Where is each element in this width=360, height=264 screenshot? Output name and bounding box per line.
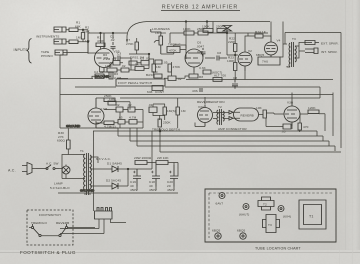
resistor R18 250K <box>216 25 227 33</box>
wire rectifier <box>90 157 152 186</box>
svg-text:C8: C8 <box>217 51 221 55</box>
capacitor C1 <box>110 35 116 49</box>
capacitor C17 <box>281 124 291 134</box>
svg-text:CONT: CONT <box>155 90 164 94</box>
svg-text:TREBLE: TREBLE <box>168 43 181 47</box>
resistor R18 b <box>197 27 208 35</box>
svg-text:FOOTSWITCH: FOOTSWITCH <box>39 213 61 217</box>
wire rail loop 4 <box>137 128 335 151</box>
reverb tank <box>234 108 259 121</box>
svg-text:D2 5AC45: D2 5AC45 <box>106 179 121 183</box>
svg-text:GROUND: GROUND <box>66 124 81 128</box>
wire B+ top bus <box>88 32 127 53</box>
svg-text:V2: V2 <box>248 49 252 53</box>
wire ground bus ps <box>58 189 178 196</box>
svg-text:INT. SPKR.: INT. SPKR. <box>321 50 338 54</box>
svg-text:EXT. SPKR.: EXT. SPKR. <box>321 42 339 46</box>
resistor R12 1M <box>153 70 162 78</box>
pot bass <box>146 64 161 77</box>
resistor R6 cathode <box>109 72 122 80</box>
diode D2 <box>106 179 121 190</box>
resistor R27 4.7M <box>104 121 116 129</box>
resistor R33 <box>256 106 266 118</box>
wire rail loop 2 <box>118 128 323 141</box>
tube V4 output <box>256 36 281 58</box>
svg-text:A.C. SW: A.C. SW <box>46 162 59 166</box>
resistor R36 4.7M <box>129 116 137 125</box>
jack foot pedal <box>116 79 165 86</box>
wire V1 cathode to ground <box>92 66 111 79</box>
svg-text:.05: .05 <box>163 61 168 65</box>
wire tremolo out <box>153 104 165 131</box>
svg-text:470K: 470K <box>173 65 181 69</box>
svg-text:120K: 120K <box>308 106 316 110</box>
svg-text:1M: 1M <box>156 65 161 69</box>
svg-text:T2: T2 <box>263 203 267 207</box>
svg-text:6BQ5: 6BQ5 <box>212 229 220 233</box>
resistor R21 <box>213 74 226 82</box>
resistor R32b <box>156 156 169 165</box>
svg-text:R8: R8 <box>199 75 203 79</box>
svg-text:AMP CONNECTOR: AMP CONNECTOR <box>218 127 247 131</box>
svg-text:7AU: 7AU <box>262 60 268 64</box>
resistor R8 cathode V2 <box>189 74 203 79</box>
plug AC line <box>8 163 32 175</box>
svg-text:T2: T2 <box>218 105 222 109</box>
svg-text:100K: 100K <box>183 27 191 31</box>
tube V5 tremolo <box>88 98 108 128</box>
tube V3A reverb driver <box>198 105 213 127</box>
capacitor C10 <box>155 60 168 65</box>
chart tube 6BQ5 right <box>237 229 246 240</box>
svg-text:D1 SA845: D1 SA845 <box>107 162 122 166</box>
lamp pilot <box>50 166 70 190</box>
svg-text:2.2M: 2.2M <box>103 57 111 61</box>
wire cluster <box>110 54 149 70</box>
jack J3 tape/phono <box>41 50 67 58</box>
capacitor C9 <box>192 88 202 93</box>
wire T3 primary/secondary <box>287 43 308 68</box>
wire phase inverter <box>227 33 245 80</box>
resistor network box <box>258 57 280 65</box>
capacitor C15 <box>115 103 123 112</box>
capacitor C5 <box>140 57 150 66</box>
svg-text:1M: 1M <box>181 109 186 113</box>
svg-text:T3: T3 <box>292 37 296 41</box>
capacitor C20 filter <box>167 165 178 192</box>
svg-text:100K: 100K <box>105 64 113 68</box>
wire B+ rail loop 1 <box>93 131 317 136</box>
wire tremolo osc <box>96 98 143 128</box>
svg-text:1M: 1M <box>76 36 81 40</box>
svg-text:T1: T1 <box>80 149 84 153</box>
svg-text:REVERBERATION: REVERBERATION <box>197 100 225 104</box>
svg-text:FOOT PEDAL SWITCH: FOOT PEDAL SWITCH <box>118 81 152 85</box>
resistor R37 1M <box>176 98 186 128</box>
svg-text:INPUTS: INPUTS <box>14 48 29 52</box>
capacitor C18 filter <box>149 165 160 192</box>
capacitor C4 cluster <box>112 57 120 65</box>
capacitor C7 <box>168 76 182 81</box>
resistor R5 1M <box>76 33 90 44</box>
tube V1 <box>95 33 120 72</box>
svg-text:PHONO: PHONO <box>41 54 53 58</box>
pot loudness <box>151 27 170 54</box>
chart transformer T3 <box>263 215 280 233</box>
svg-text:C4: C4 <box>112 57 116 61</box>
svg-text:.05: .05 <box>118 116 123 120</box>
svg-text:6BQ5: 6BQ5 <box>237 229 245 233</box>
pot tremolo depth <box>152 119 180 132</box>
switch tremolo <box>31 221 47 237</box>
footswitch box <box>27 210 73 245</box>
capacitor C3 coupling <box>114 52 124 61</box>
wire tone stack <box>129 38 186 78</box>
svg-text:3.3K: 3.3K <box>199 66 207 70</box>
chart tube 6AV7 <box>216 193 226 206</box>
svg-text:A.C.: A.C. <box>8 169 16 173</box>
resistor R17 100K <box>202 25 213 33</box>
resistor R22 220K <box>228 37 237 52</box>
jack J1 instruments <box>54 27 66 32</box>
tube V3B <box>284 101 300 127</box>
capacitor C8 <box>232 76 238 89</box>
resistor R13 3.3K <box>199 66 222 75</box>
wire rail loop 5 B+ <box>152 130 341 163</box>
capacitor C14 <box>118 116 125 125</box>
wire V4 plate top loop <box>271 22 287 58</box>
wire mid bus lines <box>60 80 333 99</box>
svg-text:10K: 10K <box>256 106 263 110</box>
wire AC to transformer <box>32 129 85 179</box>
switch AC on-off <box>36 162 59 170</box>
wire V3B stage <box>266 93 325 133</box>
svg-text:T1: T1 <box>309 215 314 219</box>
chart transformer T2 <box>258 197 274 210</box>
connector reverb plugs <box>229 111 233 121</box>
wire top rail rounded <box>127 21 270 49</box>
svg-text:6AV7: 6AV7 <box>216 202 224 206</box>
svg-text:.01: .01 <box>148 103 153 107</box>
resistor R3 470K <box>96 36 105 47</box>
svg-text:R24 1K: R24 1K <box>255 30 267 34</box>
svg-text:TUBE LOCATION CHART: TUBE LOCATION CHART <box>255 247 301 251</box>
capacitor C5b <box>121 64 129 72</box>
svg-text:C8: C8 <box>233 76 237 80</box>
svg-text:2W 10K: 2W 10K <box>157 156 169 160</box>
svg-text:1M: 1M <box>153 70 158 74</box>
wire plug leads <box>60 131 126 234</box>
svg-text:600Ω: 600Ω <box>57 139 65 143</box>
svg-text:REVERB 12 AMPLIFIER: REVERB 12 AMPLIFIER <box>162 5 238 11</box>
node B+ hourglass <box>223 26 232 34</box>
resistor R17 b <box>183 27 194 35</box>
svg-text:270K: 270K <box>126 42 134 46</box>
svg-text:.02: .02 <box>177 77 182 81</box>
svg-text:4.7M: 4.7M <box>100 107 108 111</box>
svg-text:FOOTSWITCH & PLUG: FOOTSWITCH & PLUG <box>20 250 76 255</box>
svg-text:REVERB: REVERB <box>56 221 69 225</box>
wire reverb section <box>195 97 263 127</box>
svg-text:5.0 SLO-BLO: 5.0 SLO-BLO <box>50 186 70 190</box>
capacitor C6 <box>196 41 206 57</box>
svg-text:.0047: .0047 <box>196 45 204 49</box>
resistor R26 250K <box>104 94 115 102</box>
svg-text:V4: V4 <box>277 39 281 43</box>
capacitor C13 .01 <box>148 103 157 113</box>
wire filter network <box>133 163 178 191</box>
chart tube 6AU7 <box>239 204 249 217</box>
capacitor C2 cathode <box>94 70 104 79</box>
svg-text:43S: 43S <box>192 89 198 93</box>
capacitor C8 coupling <box>205 51 227 61</box>
resistor R28 120K <box>308 106 319 114</box>
chart tube 6X4 <box>278 206 291 219</box>
svg-text:.05: .05 <box>281 130 286 134</box>
pot volume control <box>147 86 164 94</box>
transformer T1 power <box>80 149 91 195</box>
wire footswitch leads <box>29 228 95 236</box>
svg-text:ALT 700: ALT 700 <box>214 74 226 78</box>
tube V2B <box>185 49 203 72</box>
svg-text:REVERB: REVERB <box>241 114 254 118</box>
svg-text:646: 646 <box>147 90 153 94</box>
resistor R10 100K <box>105 64 117 72</box>
svg-text:.02: .02 <box>121 64 126 68</box>
jack int speaker <box>305 48 338 54</box>
svg-text:4.7M: 4.7M <box>129 116 137 120</box>
svg-text:V3A: V3A <box>198 105 205 109</box>
wire speaker box <box>285 33 341 45</box>
svg-text:470: 470 <box>303 125 309 129</box>
resistor R19 470K <box>168 64 181 72</box>
resistor R29 470 <box>298 123 309 130</box>
svg-text:250K: 250K <box>197 27 205 31</box>
wire ground bus left <box>60 55 128 128</box>
chart transformer T1 <box>299 200 326 229</box>
transformer T2 reverb <box>217 105 224 125</box>
svg-text:6BQ5: 6BQ5 <box>256 53 264 57</box>
resistor R23 100K <box>227 56 237 71</box>
jack J2 instruments <box>54 39 66 44</box>
resistor R32 1M <box>163 107 176 115</box>
svg-text:INSTRUMENTS: INSTRUMENTS <box>36 35 59 39</box>
svg-text:1M(S): 1M(S) <box>167 109 176 113</box>
capacitor C19 filter <box>130 169 141 192</box>
svg-text:(6AU7): (6AU7) <box>239 213 249 217</box>
wire to output tube <box>245 33 271 52</box>
resistor R1 68K <box>69 21 82 32</box>
svg-text:250K: 250K <box>163 121 171 125</box>
tube V3 phase inverter <box>238 49 252 71</box>
connector footswitch plug <box>95 208 113 220</box>
svg-text:C3: C3 <box>117 52 121 56</box>
svg-text:T3: T3 <box>268 223 272 227</box>
wire rail loop 3 <box>130 128 329 146</box>
jack ext speaker <box>305 41 339 46</box>
resistor R9 1M <box>129 56 144 66</box>
svg-text:(6X4): (6X4) <box>283 215 291 219</box>
resistor R30 600 ohm <box>57 131 70 149</box>
svg-text:DRS1 1M: DRS1 1M <box>130 56 144 60</box>
resistor R2 68K <box>69 26 91 44</box>
svg-text:470K: 470K <box>169 49 177 53</box>
inputs brace <box>14 39 32 64</box>
capacitor C16 <box>127 103 135 112</box>
resistor R35 10K <box>108 97 116 105</box>
chart tube 6BQ5 left <box>212 229 221 240</box>
wire input jacks to grid <box>63 29 89 54</box>
diode D1 <box>107 162 122 173</box>
pot treble <box>167 43 181 53</box>
wire V2 stage <box>164 62 194 78</box>
wire right verticals <box>320 33 341 149</box>
svg-text:20W 2000Ω: 20W 2000Ω <box>134 156 152 160</box>
svg-text:TREMOLO: TREMOLO <box>31 221 47 225</box>
wire B+ bus 2 <box>170 22 268 44</box>
transformer T3 output <box>289 37 296 67</box>
switch reverb <box>56 221 69 237</box>
svg-text:.02: .02 <box>127 103 132 107</box>
resistor R7 270K <box>126 38 138 50</box>
svg-text:.02: .02 <box>110 38 115 42</box>
resistor R31 2000 ohm <box>134 156 152 165</box>
svg-text:GROUND: GROUND <box>80 189 95 193</box>
tube location chart box <box>205 189 336 251</box>
resistor R11 1M <box>135 63 144 71</box>
title REVERB 12 AMPLIFIER <box>161 5 240 11</box>
svg-text:10K: 10K <box>109 97 116 101</box>
resistor R24 1K <box>255 30 267 38</box>
